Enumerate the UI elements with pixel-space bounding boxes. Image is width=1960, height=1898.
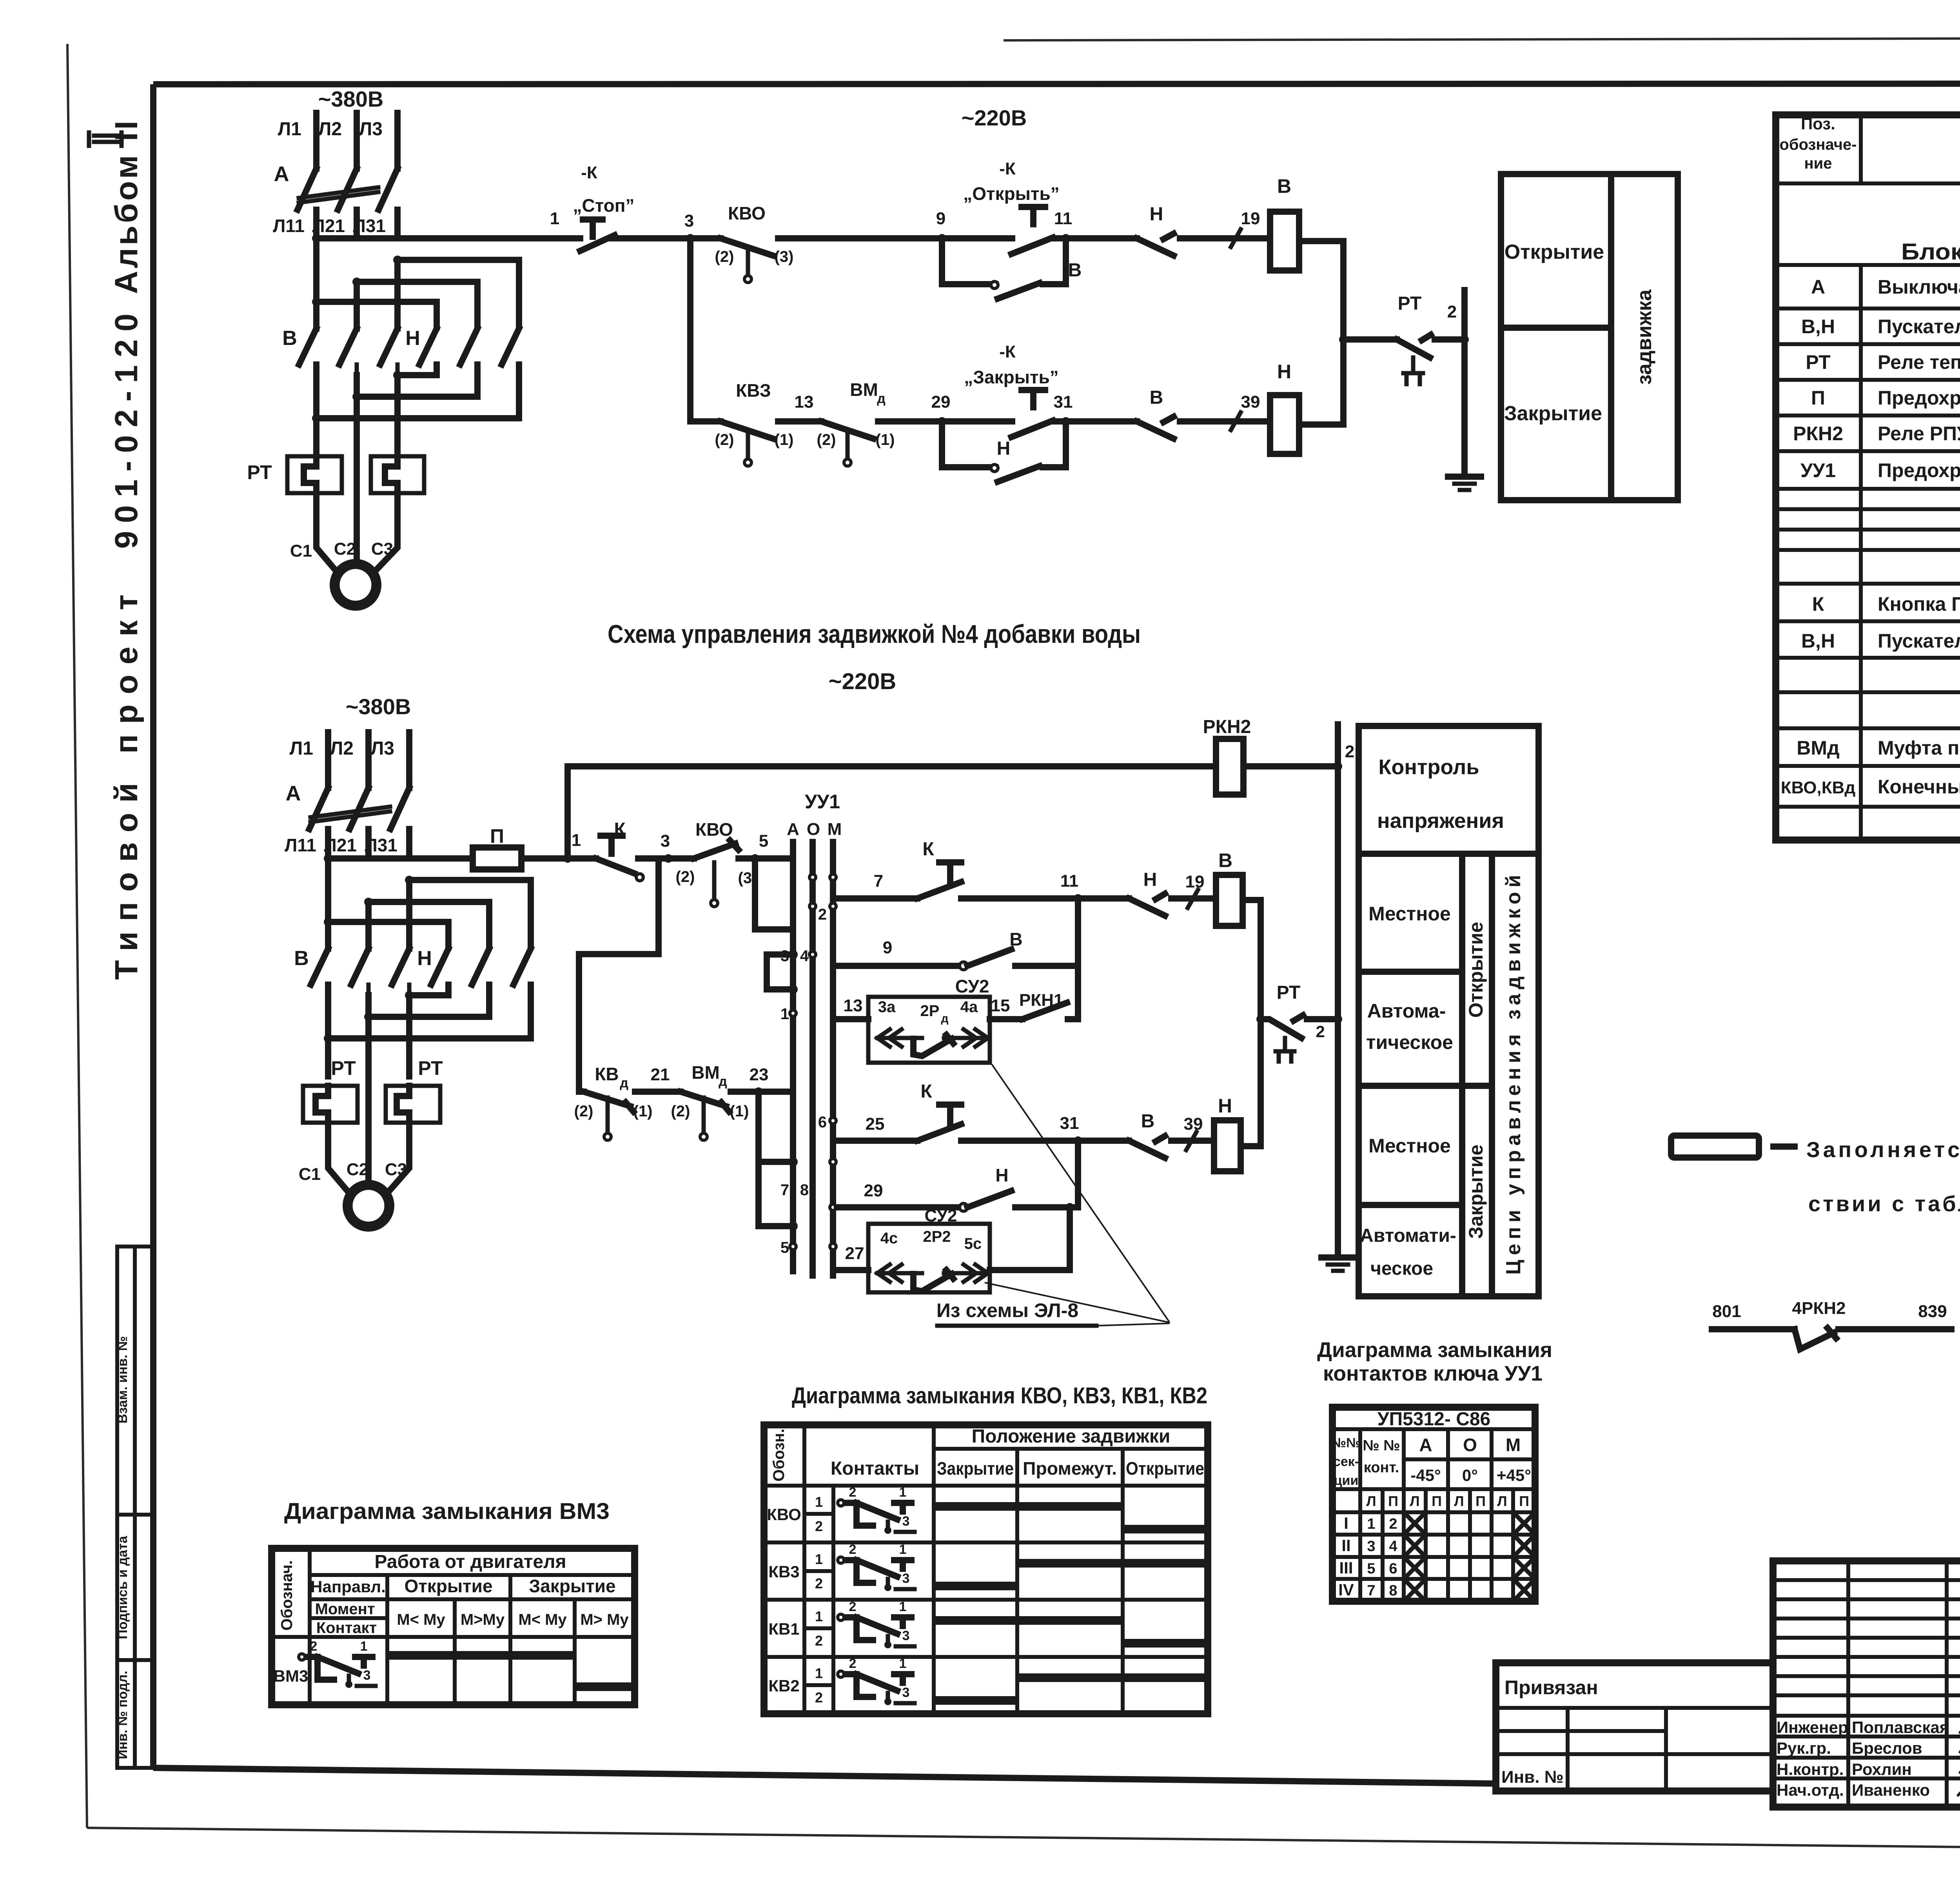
svg-text:Блок управления РБУ5401-0: Блок управления РБУ5401-03А2Ж [1901,239,1960,265]
svg-text:(2): (2) [715,431,734,448]
wire К button to node 3 s2 [638,855,668,862]
svg-text:М< Му: М< Му [397,1611,445,1628]
component table row line 17 [1776,764,1960,768]
wire Н contact to 19 [1180,235,1270,241]
svg-text:С2: С2 [347,1160,368,1179]
КВд actuator ring s2 [604,1133,611,1140]
privjazan box [1496,1663,1773,1791]
row9 contact ring [960,962,967,970]
wire stop to node 3 [612,235,690,241]
svg-text:Подпись и дата: Подпись и дата [115,1535,130,1639]
open button contact [1011,238,1053,254]
signature grid thin row y=4276 [1773,1674,1960,1678]
component table row line 7 [1776,449,1960,453]
contactor В pole blade [339,328,357,365]
merge wire H phase1 [316,365,519,418]
wire 39 slash s2 [1186,1132,1196,1150]
wire riser node1 to РКН2 rail [564,766,571,858]
svg-text:Схема управления задвижкой: Схема управления задвижкой №4 добавки во… [608,619,1141,648]
key dot b1 [830,903,836,909]
signature grid col x=4715 [1846,1561,1850,1807]
svg-text:19: 19 [1185,872,1205,891]
svg-text:М: М [1506,1435,1521,1455]
bridge wire L11 to reverse column [316,302,437,327]
UU1 colA [1446,1429,1450,1601]
component table column line x=4747 [1859,115,1863,183]
wire node11 to Н contact [1066,235,1137,241]
svg-text:Предохранитель ПДС-6-П: Предохранитель ПДС-6-П [1878,387,1960,409]
wire row25 right [961,1138,1078,1144]
svg-text:Автома-: Автома- [1367,1000,1446,1022]
close button plunger [1022,390,1045,407]
phase feeder Л2 [354,113,360,169]
svg-text:5: 5 [1367,1560,1375,1577]
KVO row КВ2 contact symbol [838,1671,915,1705]
KVO row line 3 [764,1541,1208,1544]
UU1 row I X mark col A-L [1406,1515,1423,1532]
svg-text:К: К [1812,593,1824,615]
wire phase3 drop motor2 [406,880,412,949]
svg-text:РТ: РТ [1806,351,1830,373]
wire ВМд to node 23 [731,1089,793,1095]
row9 В contact [967,949,1011,966]
limit switch КВЗ contact [720,421,773,439]
component table row line 6 [1776,414,1960,417]
key dot c1 [830,1118,836,1124]
junction node 11 s2 [1074,894,1082,903]
svg-text:М: М [828,820,842,839]
junction node 2 s2 [1334,762,1342,771]
UU1 row IV X mark col M-P [1515,1581,1533,1599]
svg-text:РТ: РТ [331,1057,356,1079]
key dot c7 [830,1243,836,1250]
svg-text:1: 1 [360,1639,368,1654]
collector upper [1075,898,1081,1019]
svg-text:Н: Н [997,438,1011,459]
svg-text:П: П [1519,1493,1529,1509]
wire chain start [579,1089,584,1095]
svg-text:обозначе-: обозначе- [1779,136,1857,153]
svg-text:П: П [490,825,504,847]
svg-text:д: д [941,1012,948,1025]
junction node 23 [754,1087,763,1096]
junction bridge L21 [352,278,361,286]
svg-text:25: 25 [866,1114,885,1134]
frame top border [153,83,1960,84]
svg-text:-К: -К [999,159,1016,178]
svg-text:3: 3 [902,1685,910,1700]
wire Л31 drop [394,210,401,238]
signature row line Инженер [1773,1714,1960,1718]
component table row line 10 [1776,528,1960,532]
junction bridge L11 motor2 [324,918,332,926]
UU1 colO [1490,1429,1494,1601]
key dot c3 [790,1159,796,1165]
svg-text:Диаграмма замыкания КВО,: Диаграмма замыкания КВО, КВ3, КВ1, КВ2 [792,1383,1207,1408]
svg-text:конт.: конт. [1364,1459,1399,1476]
bridge wire L31 to reverse column [397,260,519,325]
svg-text:А: А [286,782,301,805]
svg-text:4: 4 [1389,1538,1397,1555]
svg-text:3: 3 [902,1514,910,1529]
coil В [1270,212,1299,270]
junction merge phase3 motor2 [405,991,414,1000]
svg-text:Л21: Л21 [312,216,345,236]
junction node 3 [686,234,695,243]
РТ s2 thermal hook [1276,1038,1294,1062]
thermal heater РТ phase1 motor2 [303,1086,358,1123]
margin stamp label Подпись и дата [115,1535,130,1639]
svg-text:-45°: -45° [1410,1466,1441,1484]
KVO col contacts [932,1425,936,1714]
svg-text:2: 2 [815,1633,823,1649]
signal РКН2 contact [1795,1328,1836,1349]
svg-text:Привязан: Привязан [1504,1677,1598,1698]
KVO row КВ3 bar lower [934,1582,1017,1590]
svg-text:Обозн.: Обозн. [770,1429,788,1482]
signature squiggle 4 [1958,1785,1960,1802]
svg-text:2Р2: 2Р2 [923,1228,951,1245]
wire Л11 drop [313,210,319,238]
wire L11 rail to Stop button [316,235,580,241]
svg-text:ВМ: ВМ [850,379,878,400]
privjazan col 2 [1664,1708,1668,1791]
paper edge left [67,44,87,1828]
junction merge phase1 motor2 [324,1034,332,1043]
svg-text:Открытие: Открытие [1126,1458,1204,1479]
Н NC contact blade [1137,234,1174,256]
svg-text:УУ1: УУ1 [805,791,840,813]
wire L11 rail to fuse [328,855,473,862]
svg-text:В: В [1009,929,1022,949]
svg-text:Л3: Л3 [359,119,383,140]
svg-text:3а: 3а [878,998,896,1016]
UU1 header underline [1332,1427,1535,1431]
merge wire H phase3 motor2 [409,985,448,995]
svg-text:В,Н: В,Н [1801,630,1835,652]
svg-text:„Закрыть”: „Закрыть” [964,367,1059,387]
heater element phase3 detail [385,456,397,493]
svg-text:2: 2 [818,906,827,923]
contactor В pole blade [380,328,397,365]
svg-text:М> Му: М> Му [580,1611,629,1628]
wire В contact to 39 [1180,418,1270,425]
svg-text:П: П [1388,1493,1398,1509]
svg-text:контактов ключа УУ1: контактов ключа УУ1 [1323,1362,1543,1385]
junction bridge L31 [393,256,402,264]
svg-text:Иваненко: Иваненко [1852,1781,1930,1799]
merge wire H phase1 motor2 [328,985,531,1038]
svg-text:Л1: Л1 [278,119,301,140]
РТ contact blade [1397,335,1431,357]
component table row line 12 [1776,582,1960,586]
label задвижка [1633,289,1656,385]
contactor В pole blade [299,328,316,365]
KVO row КВ3 bar upper [1017,1559,1208,1568]
wire Л21 drop motor2 [365,829,372,858]
svg-text:С3: С3 [385,1160,407,1179]
svg-text:I: I [1344,1514,1348,1532]
wire node31 to В s2 [1078,1138,1129,1144]
wire node31 to В contact [1066,418,1137,425]
svg-text:Взам. инв. №: Взам. инв. № [115,1336,130,1423]
svg-text:2: 2 [815,1575,823,1591]
svg-text:А: А [1811,276,1825,298]
wire phase3 drop to B contact [394,260,401,328]
svg-text:Н: Н [1218,1095,1232,1117]
label Открытие rot [1465,922,1487,1018]
label Цепи управления задвижкой [1502,875,1525,1275]
wire phase2 through [354,375,360,564]
key dot a2 [809,903,816,909]
К row7 plunger [939,862,961,881]
KVO row КВ1 pin divider [804,1626,833,1630]
wire В coil s2 right [1243,900,1261,1019]
wire РКН1 to collector [1068,1016,1078,1022]
VM3 col 2 [453,1599,457,1705]
В NC contact blade [1137,417,1174,439]
stop button contact [580,235,615,251]
UU1 row line 4 [1332,1510,1535,1514]
svg-text:Диаграмма замыкания ВМ3: Диаграмма замыкания ВМ3 [284,1499,610,1524]
KVO row КВО pin divider [804,1512,833,1516]
component table row line 13 [1776,619,1960,623]
svg-text:Диаграмма замыкания: Диаграмма замыкания [1317,1338,1552,1362]
motor2 lead C3 [387,1123,409,1194]
svg-text:4РКН2: 4РКН2 [1792,1299,1846,1318]
svg-text:839: 839 [1918,1302,1947,1321]
KVO row КВО contact symbol [838,1500,915,1534]
svg-text:К: К [922,839,934,860]
svg-text:Выключатель АП50-3МТ: Выключатель АП50-3МТ [1878,276,1960,298]
В NC blade s2 [1129,1136,1165,1158]
wire KVO to node 9 [778,235,942,241]
KVO row КВ2 bar upper [1017,1673,1208,1682]
VM3 contact symbol [299,1654,376,1688]
collector lower [1075,1141,1081,1207]
bridge wire L11 motor2 [328,922,448,947]
svg-text:2: 2 [1447,302,1457,321]
privjazan header line [1496,1706,1773,1710]
seal-in Н loop to node 31 [1043,421,1066,467]
svg-text:Автомати-: Автомати- [1360,1225,1456,1246]
signature row line Нач.отд. [1773,1776,1960,1780]
svg-text:9: 9 [936,209,946,228]
svg-text:Контакты: Контакты [831,1458,919,1479]
key dot c5 [790,1223,796,1229]
svg-text:В: В [1218,849,1232,871]
СУ2 lower right arrow [944,1265,988,1282]
margin stamp label Взам. инв. № [115,1336,130,1423]
svg-text:д: д [877,391,886,406]
junction merge phase1 [312,414,321,423]
margin label: Альбом II [109,121,144,294]
svg-text:31: 31 [1060,1114,1079,1133]
svg-text:2Р: 2Р [920,1002,940,1020]
svg-text:Н: Н [405,327,420,350]
component table row line 18 [1776,805,1960,809]
svg-text:КВ3: КВ3 [768,1562,799,1581]
svg-text:М>Му: М>Му [461,1611,505,1628]
svg-text:КВО: КВО [695,819,733,840]
svg-text:III: III [1339,1559,1353,1577]
UU1 sub colM [1511,1489,1515,1601]
svg-text:Обознач.: Обознач. [278,1560,296,1630]
breaker А pole blade [379,169,397,210]
svg-text:Н: Н [1277,361,1291,383]
svg-text:№№: №№ [1331,1435,1361,1450]
wire Н coil to right rail [1299,339,1343,425]
signal wire right segment [1838,1326,1951,1332]
UU1 sub col1 [1381,1489,1385,1601]
svg-text:Инженер: Инженер [1777,1718,1848,1737]
svg-text:(2): (2) [676,868,695,885]
motor M1 circle [333,562,378,608]
svg-text:Пускатель ПМЕ-115: Пускатель ПМЕ-115 [1878,316,1960,338]
phase feeder Л2 motor2 [365,732,372,788]
underline Из схемы [937,1324,1096,1328]
UU1 row line 5 [1332,1533,1535,1537]
svg-text:+45°: +45° [1497,1466,1531,1484]
control box row divider 1 [1359,969,1462,975]
svg-text:19: 19 [1241,209,1260,228]
UU1 row I X mark col M-P [1515,1515,1533,1532]
junction node 5 s2 [751,854,759,863]
svg-text:7: 7 [1367,1582,1375,1599]
key bracket 3-4 [767,954,793,989]
junction РТ row left [1256,1015,1265,1023]
signature grid thin row y=4325 [1773,1693,1960,1697]
svg-text:6: 6 [818,1114,827,1131]
svg-text:3: 3 [661,831,670,851]
svg-text:д: д [719,1074,727,1089]
KVO header split [934,1447,1208,1451]
wire fuse to node 1 [521,855,568,862]
UU1 angle row line [1404,1457,1535,1461]
svg-text:Местное: Местное [1368,903,1451,925]
svg-text:ВМ3: ВМ3 [274,1667,309,1685]
svg-text:~220В: ~220В [962,105,1027,130]
svg-text:Л11: Л11 [273,216,305,236]
coil РКН2 [1216,739,1243,795]
junction coils to РТ [1339,335,1348,344]
svg-text:Открытие: Открытие [404,1576,492,1596]
svg-text:Н.контр.: Н.контр. [1777,1760,1844,1778]
К row25 contact [917,1124,961,1141]
margin stamp box [117,1247,153,1768]
key dot a5 [790,986,796,993]
KVO row line 4 [764,1598,1208,1602]
wire phase2 drop motor2 [365,902,372,949]
wire phase2 through motor2 [365,995,372,1185]
contactor В pole blade motor2 [311,949,328,985]
torque switch ВМ2 contact [821,421,873,439]
svg-text:напряжения: напряжения [1377,809,1504,833]
svg-text:-К: -К [999,342,1016,361]
svg-text:Н: Н [417,947,432,970]
svg-text:УУ1: УУ1 [1800,459,1836,481]
KVO row КВ2 pin divider [804,1683,833,1687]
svg-text:С3: С3 [371,539,393,559]
wire phase3 to heater motor2 [406,995,412,1076]
torque switch ВМд contact s2 [681,1092,729,1112]
wire phase1 drop to B contact [313,238,319,328]
UU1 row II X mark col M-P [1515,1537,1533,1555]
junction node 1 s2 [563,854,572,863]
signature grid col x=4966 [1945,1561,1949,1807]
К button ring s2 [636,874,643,881]
VM3 table outline [272,1548,635,1705]
wire node to РТ contact [1343,336,1397,343]
margin label: 901-02-120 [109,314,144,549]
breaker А pole blade [298,169,316,210]
svg-text:О: О [807,820,820,839]
svg-text:27: 27 [845,1244,864,1263]
svg-text:5: 5 [780,1239,789,1256]
junction L11 rail motor2 [324,854,332,863]
svg-text:3: 3 [902,1628,910,1643]
component table row line 8 [1776,487,1960,491]
frame bottom border [153,1768,1496,1784]
svg-text:В,Н: В,Н [1801,316,1835,338]
svg-text:2: 2 [849,1542,857,1557]
wire row7 left [837,895,917,902]
KVO row КВ3 pin divider [804,1569,833,1573]
wire КВд to ВМд [635,1089,681,1095]
VM3 label Обознач. [278,1560,296,1630]
svg-text:Л3: Л3 [371,738,394,759]
svg-text:ние: ние [1804,155,1832,172]
UU1 row III X mark col A-L [1406,1559,1423,1577]
VM3 header row 3 [272,1635,635,1639]
svg-text:А: А [787,820,799,839]
breaker А linkage bar [299,187,378,203]
svg-text:РТ: РТ [247,461,272,483]
svg-text:А: А [274,162,289,186]
VM3 header row 1 [310,1573,635,1577]
svg-text:ствии с таблицей на: ствии с таблицей на листе 9Л-3 [1808,1191,1960,1216]
junction merge phase3 [393,371,402,379]
wire 39 slash [1231,412,1241,430]
control box divider col2 [1489,854,1495,1296]
svg-text:Альбом II: Альбом II [109,121,144,294]
svg-text:5с: 5с [964,1235,982,1252]
valve box divider vertical [1608,174,1614,500]
svg-text:1: 1 [899,1656,907,1671]
KVO col sub [831,1486,835,1714]
svg-text:П: П [1475,1493,1486,1509]
merge wire H phase3 [397,365,437,375]
svg-text:15: 15 [991,996,1010,1015]
svg-text:Пускатель ПМЕ-124: Пускатель ПМЕ-124 [1878,630,1960,652]
contactor В pole lower motor2 [367,985,371,995]
row29 Н contact [967,1191,1011,1207]
junction L11 rail [312,234,321,243]
VM3 moment divider [310,1616,387,1620]
signature row line Рук.гр. [1773,1735,1960,1738]
svg-text:Поз.: Поз. [1801,114,1835,133]
pointer line from СУ2 lower [985,1283,1170,1323]
svg-text:Заполняется при привязке: Заполняется при привязке проекта в соотв… [1806,1137,1960,1162]
component table row line 1 [1776,181,1960,185]
contactor В pole lower motor2 [326,985,330,995]
wire row29 left [837,1204,959,1210]
svg-text:Положение задвижки: Положение задвижки [972,1426,1171,1447]
UU1 row IV X mark col A-L [1406,1581,1423,1599]
svg-text:О: О [1463,1435,1477,1455]
wire node3 to КВО s2 [668,855,694,862]
VM3 col obznach [308,1548,312,1705]
